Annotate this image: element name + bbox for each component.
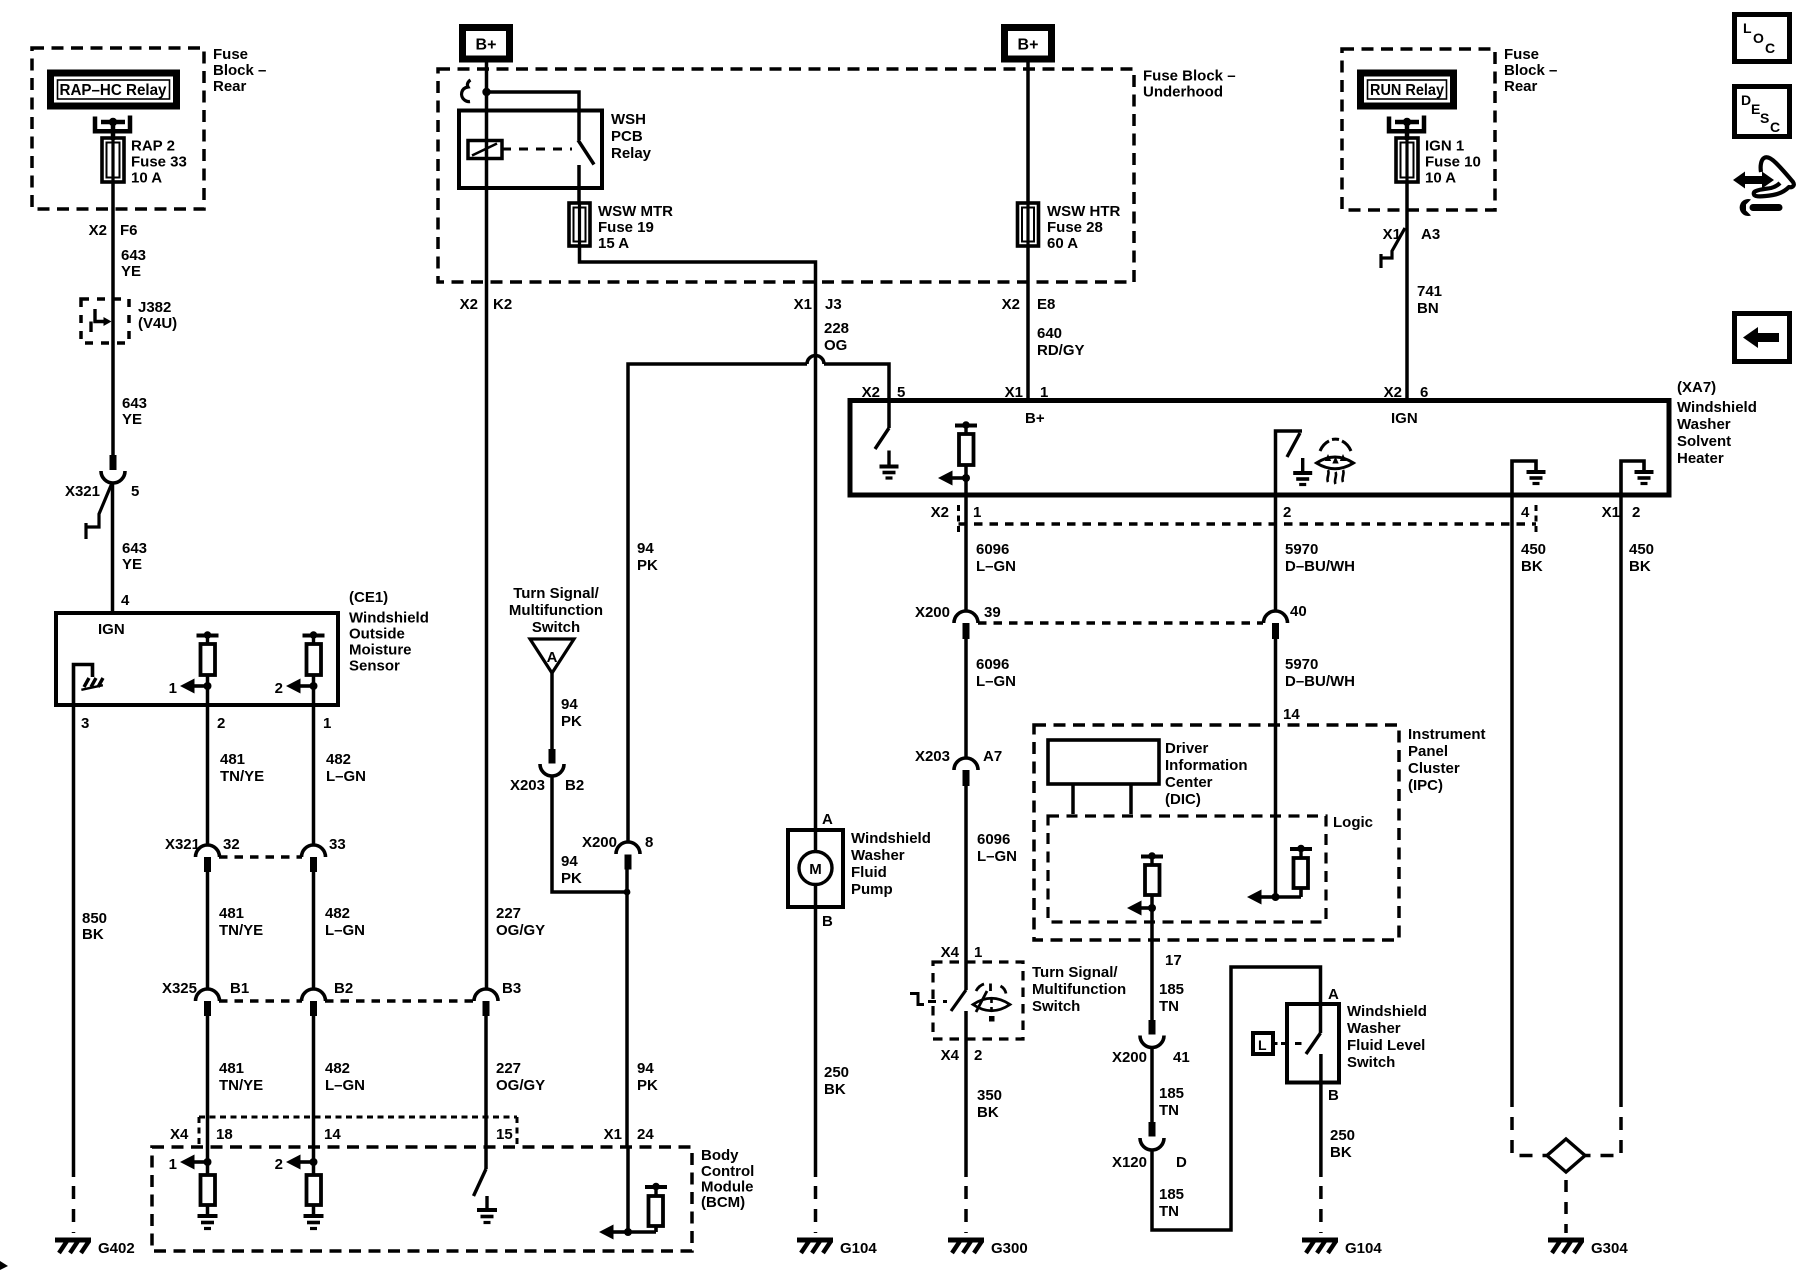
svg-text:1: 1 [169, 1156, 177, 1173]
svg-text:J382: J382 [138, 299, 171, 316]
svg-text:WSH: WSH [611, 111, 646, 128]
svg-text:X2: X2 [1002, 296, 1020, 313]
relay pin connector (RAP-HC) [95, 116, 130, 141]
BCM ground (pin 18) [198, 1216, 218, 1229]
splice pack diamond [1547, 1139, 1585, 1172]
svg-text:(DIC): (DIC) [1165, 791, 1201, 808]
svg-text:X1: X1 [604, 1126, 622, 1143]
wire 481 TN/YE (X325-B1 to BCM X4-18) [208, 1016, 264, 1162]
svg-text:482: 482 [326, 751, 351, 768]
relay RAP-HC Relay [51, 73, 177, 106]
svg-text:Switch: Switch [1032, 998, 1080, 1015]
connector label X4 2 [941, 1047, 983, 1064]
logic dashed box [1048, 814, 1373, 922]
connector X200 pin 8 [582, 834, 653, 870]
wire 6096 L-GN (X200 39 to X203 A7) [964, 639, 968, 758]
label 94 PK (lower) [637, 1060, 658, 1094]
svg-text:BK: BK [1521, 558, 1543, 575]
svg-text:Fuse: Fuse [1504, 46, 1539, 63]
svg-text:Windshield: Windshield [1347, 1003, 1427, 1020]
svg-text:L–GN: L–GN [325, 922, 365, 939]
svg-text:Information: Information [1165, 757, 1248, 774]
sensor internal ground (pin 3) [74, 665, 104, 706]
label 227 OG/GY (lower) [496, 1060, 545, 1094]
svg-text:Instrument: Instrument [1408, 726, 1486, 743]
heater internal ground (IGN branch) [1293, 458, 1312, 485]
svg-text:M: M [809, 861, 822, 878]
BCM resistor to ground (pin 18) [201, 1162, 216, 1216]
svg-text:481: 481 [219, 1060, 244, 1077]
svg-text:G300: G300 [991, 1240, 1028, 1257]
svg-text:Control: Control [701, 1163, 754, 1180]
relay pin connector (RUN) [1389, 116, 1424, 141]
BCM input arrow (pin 24) [599, 1146, 632, 1240]
svg-text:10 A: 10 A [131, 170, 162, 187]
connector X200 pin 39 [915, 604, 1001, 639]
svg-text:32: 32 [223, 836, 240, 853]
logic input arrow (pin 14) [1247, 890, 1280, 905]
heater internal output arrow (pin 1) [938, 471, 970, 486]
svg-text:A7: A7 [983, 748, 1002, 765]
svg-text:481: 481 [220, 751, 245, 768]
svg-text:G402: G402 [98, 1240, 135, 1257]
svg-text:X200: X200 [915, 604, 950, 621]
svg-text:D: D [1176, 1154, 1187, 1171]
svg-text:6096: 6096 [976, 541, 1009, 558]
svg-text:250: 250 [824, 1064, 849, 1081]
svg-text:WSW MTR: WSW MTR [598, 203, 673, 220]
label X321 5 [65, 483, 139, 500]
turn signal switch triangle A [530, 639, 574, 673]
svg-text:B1: B1 [230, 980, 249, 997]
relay coil [468, 141, 502, 159]
heater internal ground (pin 5 branch) [880, 451, 899, 479]
wire 481 TN/YE (X321-32 to X325-B1) [208, 872, 264, 990]
pin label B (level switch) [1328, 1087, 1339, 1104]
label RAP 2 Fuse 33 10 A [131, 138, 187, 187]
svg-text:Washer: Washer [851, 847, 905, 864]
logic pullup resistor (pin 17) [1141, 852, 1163, 908]
pin label A (level switch) [1328, 986, 1339, 1003]
svg-text:B2: B2 [334, 980, 353, 997]
svg-text:Relay: Relay [611, 145, 652, 162]
windshield washer fluid level switch box [1287, 1004, 1339, 1083]
fuse block rear (right) dashed box [1342, 49, 1495, 210]
wire branch to relay switch [482, 88, 579, 111]
svg-text:1: 1 [973, 504, 981, 521]
svg-text:L–GN: L–GN [976, 558, 1016, 575]
wire 227 OG/GY (B3 to BCM 15) [484, 1016, 488, 1147]
connector dash X200 39-40 [978, 621, 1263, 625]
svg-text:4: 4 [121, 592, 130, 609]
svg-text:Body: Body [701, 1147, 739, 1164]
BCM switch to ground (pin 15) [474, 1146, 488, 1210]
svg-text:IGN 1: IGN 1 [1425, 138, 1464, 155]
LOC nav box [1735, 15, 1790, 62]
wire 482 L-GN (sensor pin 1 to X321-33) [314, 705, 367, 845]
label Body Control Module (BCM) [701, 1147, 754, 1211]
connector label X2 E8 [1002, 296, 1056, 313]
svg-text:2: 2 [217, 715, 225, 732]
ground G104 (pump) [797, 1240, 877, 1257]
svg-text:X2: X2 [931, 504, 949, 521]
pin label A (pump) [822, 811, 833, 828]
heater bottom pin labels X2 1 2 4 X1 2 [931, 504, 1641, 521]
clip symbol at relay feed [462, 80, 471, 102]
label Turn Signal Multifunction Switch (lower) [1032, 964, 1126, 1015]
svg-text:18: 18 [216, 1126, 233, 1143]
svg-text:BK: BK [82, 926, 104, 943]
svg-text:PK: PK [637, 557, 658, 574]
label 250 BK (level switch) [1330, 1127, 1355, 1161]
svg-text:WSW HTR: WSW HTR [1047, 203, 1120, 220]
svg-text:2: 2 [1632, 504, 1640, 521]
svg-text:PK: PK [637, 1077, 658, 1094]
svg-text:A: A [822, 811, 833, 828]
label Windshield Washer Fluid Level Switch [1347, 1003, 1427, 1071]
lead symbol at X1 A3 [1381, 228, 1405, 268]
ground G104 (level switch) [1302, 1240, 1382, 1257]
svg-text:PK: PK [561, 713, 582, 730]
svg-text:X321: X321 [165, 836, 200, 853]
svg-text:YE: YE [121, 263, 141, 280]
label 350 BK [977, 1087, 1002, 1121]
heater internal switch (pin 5) [875, 401, 889, 450]
windshield outside moisture sensor box [56, 613, 338, 705]
svg-text:17: 17 [1165, 952, 1182, 969]
svg-text:B3: B3 [502, 980, 521, 997]
svg-text:1: 1 [323, 715, 331, 732]
ground G402 [55, 1240, 135, 1257]
svg-text:L: L [1258, 1037, 1267, 1053]
svg-text:X4: X4 [941, 1047, 960, 1064]
svg-text:227: 227 [496, 905, 521, 922]
wire fuse 28 to X2 E8 [1026, 246, 1030, 282]
svg-text:8: 8 [645, 834, 653, 851]
splice J382 (V4U) [81, 299, 129, 343]
pin label 14 [1283, 706, 1300, 723]
fuse block rear (left) dashed box [32, 48, 204, 209]
BCM ground (pin 15) [477, 1210, 497, 1223]
svg-text:L–GN: L–GN [977, 848, 1017, 865]
label 6096 L-GN (upper) [976, 541, 1016, 575]
wire 643 from fuse to J382 [111, 182, 115, 343]
level sensor L box [1253, 1033, 1303, 1054]
label 94 PK (triangle) [561, 696, 582, 730]
label Driver Information Center (DIC) [1165, 740, 1248, 808]
svg-text:RAP–HC Relay: RAP–HC Relay [60, 82, 167, 99]
svg-text:L–GN: L–GN [325, 1077, 365, 1094]
connector X200 pin 40 [1264, 603, 1307, 639]
wire 228 OG down to pump [814, 282, 818, 830]
svg-text:Windshield: Windshield [1677, 399, 1757, 416]
label (XA7) Windshield Washer Solvent Heater [1677, 379, 1757, 467]
svg-text:Block –: Block – [213, 62, 266, 79]
svg-text:Rear: Rear [213, 78, 247, 95]
svg-text:RUN Relay: RUN Relay [1370, 82, 1444, 99]
svg-text:TN/YE: TN/YE [220, 768, 264, 785]
label IGN 1 Fuse 10 10 A [1425, 138, 1481, 187]
svg-text:X4: X4 [170, 1126, 189, 1143]
relay RUN Relay [1361, 73, 1454, 106]
label Turn Signal Multifunction Switch (upper) [509, 585, 603, 636]
svg-text:4: 4 [1521, 504, 1530, 521]
svg-text:IGN: IGN [1391, 410, 1418, 427]
wire 450 BK (heater pin X1-2 to splice) [1585, 495, 1621, 1156]
svg-text:450: 450 [1521, 541, 1546, 558]
svg-text:Moisture: Moisture [349, 642, 412, 659]
connector X321 pin 5 (in-line) [86, 455, 125, 539]
washer switch actuator bracket [910, 994, 947, 1005]
svg-text:741: 741 [1417, 283, 1442, 300]
svg-text:X200: X200 [1112, 1049, 1147, 1066]
svg-text:Panel: Panel [1408, 743, 1448, 760]
svg-text:Windshield: Windshield [851, 830, 931, 847]
svg-text:Turn Signal/: Turn Signal/ [513, 585, 599, 602]
sensor internal output arrow 2 [275, 679, 318, 698]
connector dash X325 B1-B2 [219, 999, 302, 1003]
svg-text:X1: X1 [1602, 504, 1620, 521]
sensor internal output arrow 1 [169, 679, 212, 698]
heater washer heat icon [1317, 439, 1354, 484]
svg-text:B+: B+ [1018, 37, 1039, 54]
svg-text:TN: TN [1159, 1203, 1179, 1220]
svg-text:G104: G104 [1345, 1240, 1382, 1257]
svg-text:A: A [1328, 986, 1339, 1003]
svg-text:BK: BK [977, 1104, 999, 1121]
label WSW HTR Fuse 28 60 A [1047, 203, 1120, 252]
washer spray icon [973, 984, 1010, 1022]
svg-text:YE: YE [122, 556, 142, 573]
svg-text:250: 250 [1330, 1127, 1355, 1144]
svg-text:5970: 5970 [1285, 541, 1318, 558]
connector X325 pin B3 [474, 980, 521, 1016]
svg-text:Fuse 10: Fuse 10 [1425, 154, 1481, 171]
wire 481 TN/YE (sensor pin 2 to X321-32) [208, 705, 265, 845]
connector dash X321 32-33 [219, 855, 302, 859]
label 94 PK (to X200 8) [561, 853, 582, 887]
svg-text:Cluster: Cluster [1408, 760, 1460, 777]
svg-text:B+: B+ [1025, 410, 1045, 427]
svg-text:643: 643 [121, 247, 146, 264]
svg-text:Rear: Rear [1504, 78, 1538, 95]
svg-text:TN/YE: TN/YE [219, 1077, 263, 1094]
wire 741 BN [1405, 210, 1409, 401]
svg-text:L–GN: L–GN [326, 768, 366, 785]
body control module BCM dashed box [152, 1147, 692, 1251]
svg-text:94: 94 [637, 540, 654, 557]
svg-text:10 A: 10 A [1425, 170, 1456, 187]
label 741 BN [1417, 283, 1442, 317]
svg-text:Heater: Heater [1677, 450, 1724, 467]
svg-text:OG/GY: OG/GY [496, 1077, 545, 1094]
svg-text:14: 14 [324, 1126, 341, 1143]
svg-text:5970: 5970 [1285, 656, 1318, 673]
wire 227 OG/GY (K2 down to X325 B3) [485, 282, 489, 990]
label 185 TN (middle) [1159, 1085, 1184, 1119]
svg-text:640: 640 [1037, 325, 1062, 342]
heater internal resistor (B+ element) [955, 421, 977, 495]
relay coil-contact dashed link [502, 148, 572, 151]
BCM pullup resistor (pin 24) [628, 1183, 667, 1232]
svg-text:(XA7): (XA7) [1677, 379, 1716, 396]
svg-text:39: 39 [984, 604, 1001, 621]
svg-text:Outside: Outside [349, 626, 405, 643]
washer switch blade [951, 962, 966, 1062]
svg-text:X200: X200 [582, 834, 617, 851]
label Fuse Block - Rear (right) [1504, 46, 1557, 95]
svg-text:X2: X2 [460, 296, 478, 313]
svg-text:2: 2 [275, 680, 283, 697]
label 640 RD/GY [1037, 325, 1085, 359]
wire X203 B2 to X200 junction [552, 776, 627, 892]
svg-text:Block –: Block – [1504, 62, 1557, 79]
svg-text:RD/GY: RD/GY [1037, 342, 1085, 359]
wire 643 from J382 to X321 [111, 343, 115, 455]
svg-text:RAP 2: RAP 2 [131, 138, 175, 155]
connector dash X325 B2-B3 [325, 999, 473, 1003]
heater internal switch (pin 2 / IGN) [1276, 431, 1303, 495]
svg-text:X4: X4 [941, 944, 960, 961]
connector label X4 1 [941, 944, 983, 961]
connector X325 pin B1 [162, 980, 249, 1016]
svg-text:(CE1): (CE1) [349, 589, 388, 606]
connector X4 dashed boundary [199, 1117, 517, 1146]
heater internal ground (pin X1-2) [1621, 461, 1654, 495]
svg-text:G104: G104 [840, 1240, 877, 1257]
pin label B (pump) [822, 913, 833, 930]
fuse RAP 2 Fuse 33 10 A [102, 138, 124, 182]
BCM input arrow 1 [169, 1155, 212, 1174]
svg-text:L: L [1743, 20, 1752, 36]
interactive tool icon [1733, 157, 1794, 216]
wire 250 BK (pump to G104) [814, 907, 818, 1233]
BCM resistor to ground (pin 14) [307, 1162, 322, 1216]
svg-text:Fuse: Fuse [213, 46, 248, 63]
wire fuse 10 to X1 A3 [1405, 182, 1409, 210]
svg-text:L–GN: L–GN [976, 673, 1016, 690]
wire 640 RD/GY [1026, 282, 1030, 401]
wire 850 BK (sensor pin 3 to G402) [72, 705, 76, 1233]
svg-text:6096: 6096 [976, 656, 1009, 673]
label 5970 D-BU/WH (upper) [1285, 541, 1355, 575]
svg-text:OG: OG [824, 337, 847, 354]
svg-text:481: 481 [219, 905, 244, 922]
connector X203 pin A7 [915, 748, 1002, 786]
wire 643 from X321 to sensor pin 4 [111, 483, 115, 612]
svg-text:350: 350 [977, 1087, 1002, 1104]
driver information center DIC box [1048, 740, 1159, 814]
connector label X2 F6 [89, 222, 138, 239]
pin label 4 [121, 592, 130, 609]
pin label 17 [1165, 952, 1182, 969]
svg-text:TN: TN [1159, 998, 1179, 1015]
label 643 YE (upper) [121, 247, 146, 280]
svg-text:PCB: PCB [611, 128, 643, 145]
svg-text:2: 2 [275, 1156, 283, 1173]
BCM ground (pin 14) [304, 1216, 324, 1229]
svg-text:X325: X325 [162, 980, 197, 997]
svg-text:O: O [1753, 30, 1764, 46]
svg-text:228: 228 [824, 320, 849, 337]
svg-text:94: 94 [561, 853, 578, 870]
svg-text:BN: BN [1417, 300, 1439, 317]
wire 94 PK to heater with crossover hop [628, 356, 889, 844]
label X1 24 (BCM) [604, 1126, 655, 1143]
svg-text:B: B [822, 913, 833, 930]
sensor internal resistor (pin 2) [197, 631, 219, 705]
svg-text:K2: K2 [493, 296, 512, 313]
svg-text:E8: E8 [1037, 296, 1055, 313]
wire 5970 D-BU/WH (heater pin 2 to X200 40) [1274, 495, 1278, 611]
connector X203 pin B2 [510, 749, 584, 794]
svg-text:15 A: 15 A [598, 235, 629, 252]
connector label X1 J3 [794, 296, 842, 313]
svg-text:Sensor: Sensor [349, 658, 400, 675]
label 643 YE (lower) [122, 540, 147, 573]
sensor internal resistor (pin 1) [303, 631, 325, 705]
svg-text:Fuse 33: Fuse 33 [131, 154, 187, 171]
label 185 TN (lower) [1159, 1186, 1184, 1220]
connector X2 dashed boundary (heater) [959, 505, 1537, 532]
svg-text:E: E [1751, 101, 1760, 117]
svg-text:Switch: Switch [532, 619, 580, 636]
svg-text:482: 482 [325, 1060, 350, 1077]
connector X120 pin D [1112, 1122, 1187, 1171]
svg-text:PK: PK [561, 870, 582, 887]
svg-text:B2: B2 [565, 777, 584, 794]
level switch contact [1306, 1004, 1321, 1083]
connector label X2 5 (heater) [862, 384, 906, 401]
wire coil output to X2 K2 [485, 92, 489, 282]
svg-text:Turn Signal/: Turn Signal/ [1032, 964, 1118, 981]
svg-text:G304: G304 [1591, 1240, 1628, 1257]
wire fuse 19 to X1 J3 [580, 246, 816, 282]
svg-text:Fluid: Fluid [851, 864, 887, 881]
svg-text:Multifunction: Multifunction [509, 602, 603, 619]
svg-text:Switch: Switch [1347, 1054, 1395, 1071]
label Fuse Block - Underhood [1143, 68, 1236, 101]
label 228 OG [824, 320, 849, 354]
svg-text:F6: F6 [120, 222, 138, 239]
svg-text:BK: BK [1629, 558, 1651, 575]
svg-text:D: D [1741, 92, 1751, 108]
svg-text:643: 643 [122, 395, 147, 412]
svg-text:6096: 6096 [977, 831, 1010, 848]
wire 5970 D-BU/WH (X200 40 to IPC 14) [1274, 639, 1278, 897]
label 850 BK [82, 910, 107, 943]
svg-text:41: 41 [1173, 1049, 1190, 1066]
wire 6096 L-GN (X203 A7 to X4 1) [964, 786, 968, 962]
sensor pin labels 3 2 1 [81, 715, 331, 732]
svg-text:60 A: 60 A [1047, 235, 1078, 252]
connector X325 pin B2 [302, 980, 354, 1016]
label WSH PCB Relay [611, 111, 652, 162]
wire 185 TN (IPC 17 to X200 41) [1150, 908, 1154, 1020]
svg-text:(IPC): (IPC) [1408, 777, 1443, 794]
svg-text:Fuse Block –: Fuse Block – [1143, 68, 1236, 85]
svg-text:482: 482 [325, 905, 350, 922]
svg-text:Multifunction: Multifunction [1032, 981, 1126, 998]
windshield washer solvent heater box [850, 401, 1669, 496]
svg-text:94: 94 [637, 1060, 654, 1077]
wire 185 TN (X120 D to level switch A) [1152, 967, 1321, 1230]
svg-text:D–BU/WH: D–BU/WH [1285, 558, 1355, 575]
svg-text:D–BU/WH: D–BU/WH [1285, 673, 1355, 690]
wire 6096 L-GN (heater pin 1 to X200 39) [964, 495, 968, 611]
svg-text:2: 2 [974, 1047, 982, 1064]
svg-text:Fuse 28: Fuse 28 [1047, 219, 1103, 236]
